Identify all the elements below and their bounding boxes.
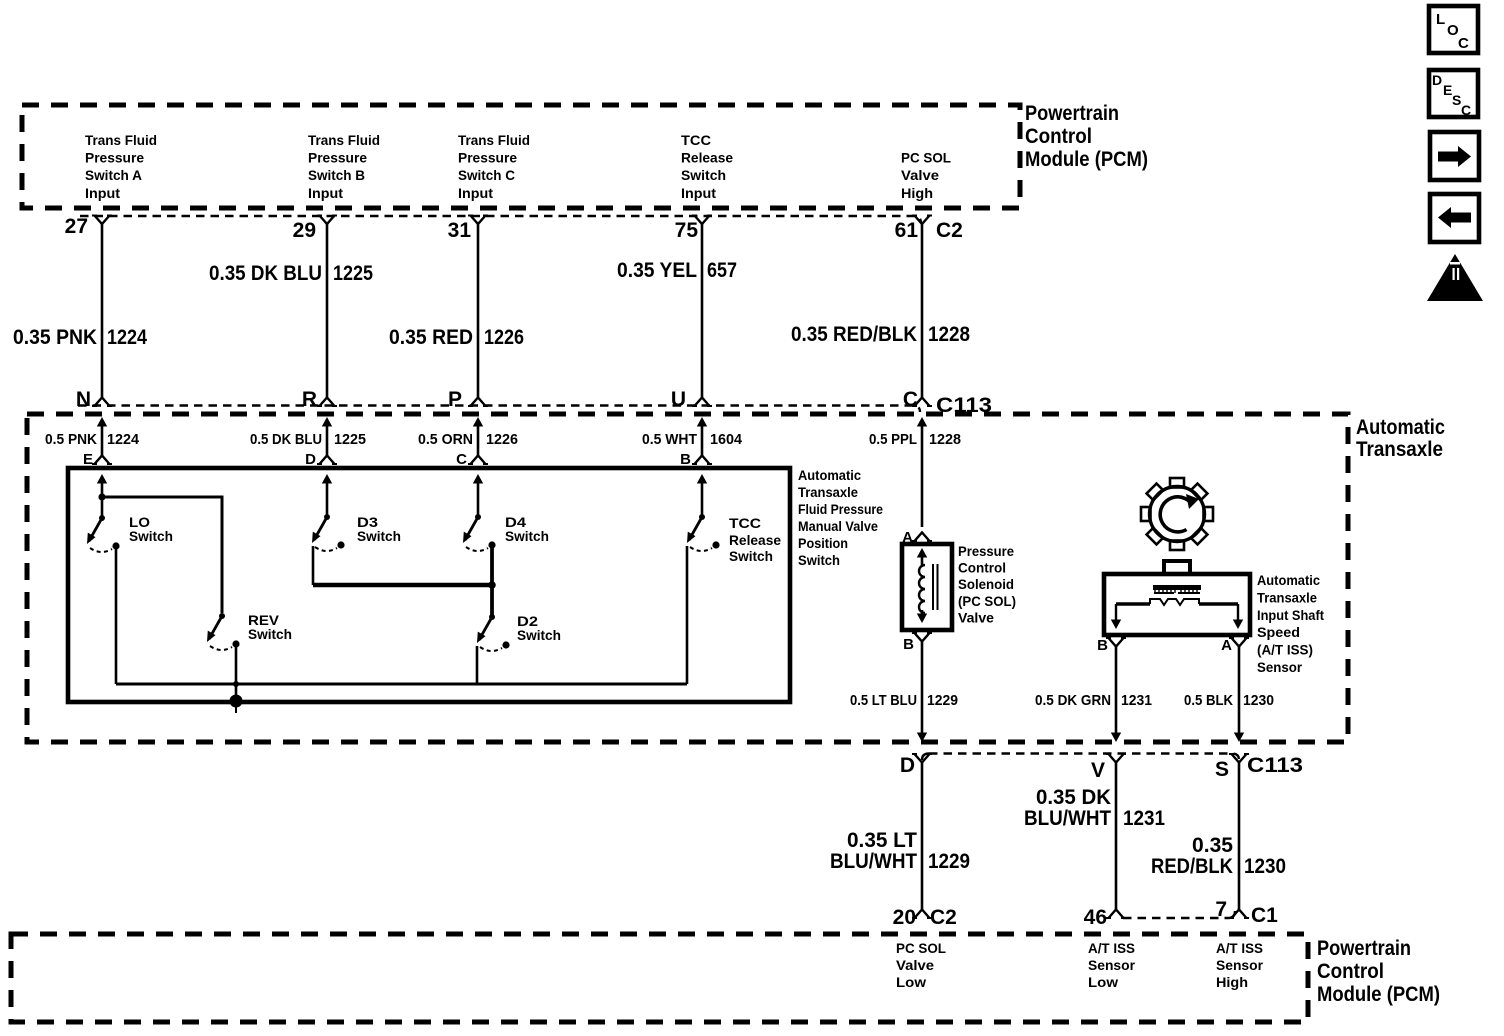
wire 0.5 ORN 1226 into switch box bbox=[473, 417, 483, 427]
svg-text:Speed: Speed bbox=[1257, 624, 1300, 640]
svg-text:D: D bbox=[305, 451, 316, 468]
D2 switch bbox=[477, 614, 510, 651]
pin connector at C113 (top half) bbox=[317, 398, 337, 407]
svg-text:C2: C2 bbox=[936, 219, 963, 242]
svg-text:L: L bbox=[1436, 11, 1445, 28]
svg-text:31: 31 bbox=[448, 219, 472, 242]
wire D2 blade to bottom bus bbox=[476, 646, 479, 684]
svg-text:Low: Low bbox=[896, 974, 926, 990]
svg-text:Input: Input bbox=[308, 185, 343, 201]
svg-text:TCC: TCC bbox=[681, 132, 711, 148]
wire 0.35 DK BLU 1225 (C2 to C113) bbox=[326, 223, 329, 398]
wire TCC blade to bottom bus bbox=[686, 546, 689, 684]
pin connector at C2 bbox=[317, 216, 337, 225]
LO switch bbox=[87, 515, 120, 552]
junction bus / D4-D2 wire bbox=[488, 581, 496, 589]
wire B to TCC release switch bbox=[701, 483, 704, 517]
svg-text:A/T ISS: A/T ISS bbox=[1088, 940, 1135, 956]
svg-text:TCC: TCC bbox=[729, 515, 761, 531]
svg-text:29: 29 bbox=[293, 219, 316, 242]
svg-text:1230: 1230 bbox=[1243, 692, 1274, 709]
svg-text:B: B bbox=[680, 451, 691, 468]
caution triangle icon bbox=[1427, 254, 1483, 301]
svg-text:(PC SOL): (PC SOL) bbox=[958, 593, 1016, 609]
svg-text:0.5 ORN: 0.5 ORN bbox=[418, 431, 473, 448]
wire C113 to PCM (bottom) bbox=[1238, 762, 1241, 910]
svg-text:0.35 RED/BLK: 0.35 RED/BLK bbox=[791, 323, 917, 346]
svg-text:1225: 1225 bbox=[333, 262, 373, 285]
wire 0.5 PPL 1228 to PC SOL valve bbox=[917, 417, 927, 427]
wire LO contact to bottom bus bbox=[115, 549, 118, 684]
pin connector at C113 (top half) bbox=[692, 398, 712, 407]
svg-text:0.35 LT: 0.35 LT bbox=[847, 829, 917, 852]
svg-text:0.35: 0.35 bbox=[1192, 834, 1233, 857]
svg-text:B: B bbox=[903, 636, 914, 653]
svg-text:1226: 1226 bbox=[484, 326, 524, 349]
pressure control solenoid box bbox=[902, 544, 952, 630]
REV switch bbox=[207, 613, 240, 650]
svg-text:Input Shaft: Input Shaft bbox=[1257, 607, 1324, 623]
LOC icon bbox=[1429, 6, 1478, 53]
sensor boss bbox=[1164, 561, 1190, 574]
svg-text:C113: C113 bbox=[1247, 754, 1303, 777]
wire C to D4 switch bbox=[477, 483, 480, 517]
svg-text:7: 7 bbox=[1215, 898, 1227, 921]
splice dot on box edge bbox=[230, 695, 243, 708]
svg-text:Solenoid: Solenoid bbox=[958, 576, 1014, 592]
wire C113 to PCM (bottom) bbox=[921, 762, 924, 910]
wire REV contact down bbox=[235, 647, 238, 699]
pin connector at C2 bbox=[692, 216, 712, 225]
svg-text:0.5 LT BLU: 0.5 LT BLU bbox=[850, 692, 917, 709]
svg-text:Control: Control bbox=[1025, 125, 1092, 148]
svg-text:C: C bbox=[1458, 35, 1469, 52]
svg-text:C: C bbox=[456, 451, 467, 468]
wire PC SOL B down bbox=[921, 641, 924, 733]
PCM module box (top) bbox=[22, 105, 1020, 208]
svg-text:S: S bbox=[1452, 92, 1461, 108]
pin connector at C113 (top half) bbox=[912, 398, 932, 407]
gear rotation icon bbox=[1141, 478, 1213, 550]
wire ISS B down bbox=[1115, 646, 1118, 733]
wire inside switch box bbox=[97, 474, 107, 484]
svg-text:1231: 1231 bbox=[1123, 807, 1165, 830]
wire 0.5 WHT 1604 into switch box bbox=[697, 417, 707, 427]
svg-text:Powertrain: Powertrain bbox=[1025, 102, 1119, 125]
svg-text:0.35 YEL: 0.35 YEL bbox=[617, 259, 697, 282]
wire D to D3 switch bbox=[326, 483, 329, 517]
sensor terminal B bbox=[1115, 604, 1117, 621]
svg-text:Pressure: Pressure bbox=[958, 543, 1014, 559]
svg-text:Switch: Switch bbox=[517, 627, 561, 643]
svg-text:Switch: Switch bbox=[129, 528, 173, 544]
svg-text:0.5 DK BLU: 0.5 DK BLU bbox=[250, 431, 322, 448]
svg-text:Input: Input bbox=[458, 185, 493, 201]
junction node E branch bbox=[98, 493, 105, 500]
svg-text:Pressure: Pressure bbox=[458, 150, 517, 166]
sensor coil core bbox=[1153, 585, 1201, 590]
svg-text:1231: 1231 bbox=[1121, 692, 1152, 709]
svg-text:1229: 1229 bbox=[927, 692, 958, 709]
wire 0.35 RED 1226 (C2 to C113) bbox=[477, 223, 480, 398]
svg-text:Sensor: Sensor bbox=[1216, 957, 1264, 973]
svg-text:27: 27 bbox=[65, 215, 88, 238]
svg-text:Input: Input bbox=[681, 185, 716, 201]
manual valve position switch box bbox=[68, 468, 790, 702]
wire 0.35 PNK 1224 (C2 to C113) bbox=[101, 223, 104, 398]
PCM module box (bottom) bbox=[11, 934, 1308, 1022]
svg-text:0.35 DK: 0.35 DK bbox=[1036, 786, 1111, 809]
svg-text:Release: Release bbox=[729, 532, 781, 548]
svg-text:V: V bbox=[1091, 759, 1105, 782]
svg-text:E: E bbox=[1443, 82, 1452, 98]
svg-text:A: A bbox=[902, 529, 913, 546]
svg-text:0.35 DK BLU: 0.35 DK BLU bbox=[209, 262, 322, 285]
solenoid internals bbox=[917, 548, 927, 558]
wire ISS A down bbox=[1238, 646, 1241, 733]
wire inside switch box bbox=[473, 474, 483, 484]
wire D4 contact to D2 bbox=[490, 548, 494, 617]
svg-text:High: High bbox=[901, 185, 933, 201]
svg-text:0.5 WHT: 0.5 WHT bbox=[642, 431, 697, 448]
pin connector at C2 bbox=[92, 216, 112, 225]
svg-text:CAUTION: CAUTION bbox=[1436, 288, 1474, 297]
svg-text:Pressure: Pressure bbox=[308, 150, 367, 166]
svg-text:High: High bbox=[1216, 974, 1248, 990]
svg-text:U: U bbox=[671, 388, 686, 411]
svg-text:Sensor: Sensor bbox=[1257, 659, 1303, 675]
bus D3 to D4/D2 bbox=[313, 583, 492, 587]
svg-text:C: C bbox=[903, 388, 918, 411]
svg-text:P: P bbox=[448, 388, 462, 411]
svg-text:A: A bbox=[1221, 637, 1232, 654]
svg-text:61: 61 bbox=[895, 219, 919, 242]
svg-text:0.5 PPL: 0.5 PPL bbox=[869, 431, 917, 448]
svg-text:Switch: Switch bbox=[505, 528, 549, 544]
svg-text:1228: 1228 bbox=[929, 431, 961, 448]
svg-text:S: S bbox=[1215, 758, 1229, 781]
svg-text:(A/T ISS): (A/T ISS) bbox=[1257, 642, 1313, 658]
svg-text:Pressure: Pressure bbox=[85, 150, 144, 166]
svg-text:Automatic: Automatic bbox=[1257, 572, 1320, 588]
svg-text:Release: Release bbox=[681, 150, 733, 166]
D3 switch bbox=[312, 514, 345, 551]
svg-text:Switch A: Switch A bbox=[85, 167, 142, 183]
svg-text:1604: 1604 bbox=[710, 431, 743, 448]
svg-text:657: 657 bbox=[707, 259, 737, 282]
svg-text:Transaxle: Transaxle bbox=[798, 484, 858, 500]
svg-text:46: 46 bbox=[1084, 906, 1107, 929]
svg-text:C: C bbox=[1461, 102, 1471, 118]
svg-text:1225: 1225 bbox=[334, 431, 366, 448]
svg-text:Sensor: Sensor bbox=[1088, 957, 1136, 973]
svg-text:Switch: Switch bbox=[248, 626, 292, 642]
svg-text:Valve: Valve bbox=[896, 957, 934, 973]
svg-text:E: E bbox=[83, 451, 93, 468]
svg-text:0.5 BLK: 0.5 BLK bbox=[1184, 692, 1233, 709]
svg-text:Transaxle: Transaxle bbox=[1356, 438, 1443, 461]
Automatic Transaxle box bbox=[27, 414, 1348, 742]
svg-text:D: D bbox=[1432, 72, 1442, 88]
wire D3 blade to bus bbox=[312, 546, 315, 585]
svg-text:1224: 1224 bbox=[107, 326, 147, 349]
svg-text:BLU/WHT: BLU/WHT bbox=[830, 850, 917, 873]
svg-text:Switch C: Switch C bbox=[458, 167, 515, 183]
junction REV wire / bottom bus bbox=[233, 681, 239, 687]
svg-text:PC SOL: PC SOL bbox=[901, 150, 951, 166]
A/T ISS sensor body bbox=[1104, 574, 1250, 635]
svg-text:B: B bbox=[1097, 637, 1108, 654]
svg-text:1229: 1229 bbox=[928, 850, 970, 873]
connector C1 line (bottom) bbox=[1123, 917, 1228, 919]
pin connector at C2 bbox=[468, 216, 488, 225]
svg-text:BLU/WHT: BLU/WHT bbox=[1024, 807, 1111, 830]
wire 0.35 YEL 657 (C2 to C113) bbox=[701, 223, 704, 398]
svg-text:Transaxle: Transaxle bbox=[1257, 589, 1317, 605]
svg-text:N: N bbox=[76, 388, 91, 411]
svg-text:Fluid Pressure: Fluid Pressure bbox=[798, 501, 883, 517]
svg-text:0.5 PNK: 0.5 PNK bbox=[45, 431, 97, 448]
svg-text:Switch B: Switch B bbox=[308, 167, 365, 183]
svg-text:Position: Position bbox=[798, 535, 848, 551]
pin connector at C2 bbox=[912, 216, 932, 225]
svg-text:0.35 PNK: 0.35 PNK bbox=[13, 326, 97, 349]
svg-text:Control: Control bbox=[1317, 960, 1384, 983]
sensor terminal A bbox=[1237, 604, 1239, 621]
back arrow icon bbox=[1430, 194, 1479, 242]
wire 0.5 PNK 1224 into switch box bbox=[97, 417, 107, 427]
svg-text:Switch: Switch bbox=[729, 548, 773, 564]
svg-text:Trans Fluid: Trans Fluid bbox=[308, 132, 380, 148]
svg-text:D: D bbox=[900, 754, 915, 777]
svg-text:R: R bbox=[302, 388, 317, 411]
pin connector at C113 (top half) bbox=[92, 398, 112, 407]
wire C113 to PCM (bottom) bbox=[1115, 762, 1118, 910]
connector C2 line (top) bbox=[80, 216, 921, 223]
D4 switch bbox=[463, 514, 496, 551]
svg-text:20: 20 bbox=[893, 906, 916, 929]
svg-text:1228: 1228 bbox=[928, 323, 970, 346]
wire 0.5 DK BLU 1225 into switch box bbox=[322, 417, 332, 427]
forward arrow icon bbox=[1430, 132, 1479, 180]
connector C113 line (bottom) bbox=[929, 754, 1239, 761]
svg-text:PC SOL: PC SOL bbox=[896, 940, 946, 956]
svg-text:Module (PCM): Module (PCM) bbox=[1025, 148, 1148, 171]
svg-text:Trans Fluid: Trans Fluid bbox=[85, 132, 157, 148]
svg-text:Manual Valve: Manual Valve bbox=[798, 518, 878, 534]
wire branch to REV switch bbox=[102, 497, 222, 613]
svg-text:Automatic: Automatic bbox=[798, 467, 861, 483]
svg-text:1224: 1224 bbox=[107, 431, 140, 448]
svg-text:C2: C2 bbox=[930, 906, 957, 929]
svg-text:Low: Low bbox=[1088, 974, 1118, 990]
wire inside switch box bbox=[697, 474, 707, 484]
wire E to LO switch bbox=[101, 483, 104, 518]
TCC release switch bbox=[687, 514, 720, 551]
bottom bus wire bbox=[116, 683, 687, 686]
svg-text:Automatic: Automatic bbox=[1356, 416, 1445, 439]
svg-text:C1: C1 bbox=[1251, 904, 1278, 927]
svg-text:RED/BLK: RED/BLK bbox=[1151, 855, 1233, 878]
wire 0.35 RED/BLK 1228 (C2 to C113) bbox=[921, 223, 924, 398]
svg-text:Module (PCM): Module (PCM) bbox=[1317, 983, 1440, 1006]
svg-text:75: 75 bbox=[675, 219, 699, 242]
connector C113 line (top) bbox=[78, 406, 920, 413]
svg-text:0.5 DK GRN: 0.5 DK GRN bbox=[1035, 692, 1111, 709]
svg-text:A/T ISS: A/T ISS bbox=[1216, 940, 1263, 956]
svg-text:1230: 1230 bbox=[1244, 855, 1286, 878]
svg-text:0.35 RED: 0.35 RED bbox=[389, 326, 473, 349]
wire inside switch box bbox=[322, 474, 332, 484]
svg-text:Valve: Valve bbox=[901, 167, 939, 183]
svg-text:Switch: Switch bbox=[798, 552, 840, 568]
svg-text:Powertrain: Powertrain bbox=[1317, 937, 1411, 960]
pin connector at C113 (top half) bbox=[468, 398, 488, 407]
sensor pickup outline bbox=[1116, 602, 1238, 606]
svg-text:1226: 1226 bbox=[486, 431, 518, 448]
svg-text:Input: Input bbox=[85, 185, 120, 201]
svg-text:Control: Control bbox=[958, 560, 1006, 576]
svg-text:Trans Fluid: Trans Fluid bbox=[458, 132, 530, 148]
svg-text:Valve: Valve bbox=[958, 609, 994, 625]
svg-text:Switch: Switch bbox=[357, 528, 401, 544]
DESC icon bbox=[1429, 70, 1478, 118]
svg-text:Switch: Switch bbox=[681, 167, 726, 183]
